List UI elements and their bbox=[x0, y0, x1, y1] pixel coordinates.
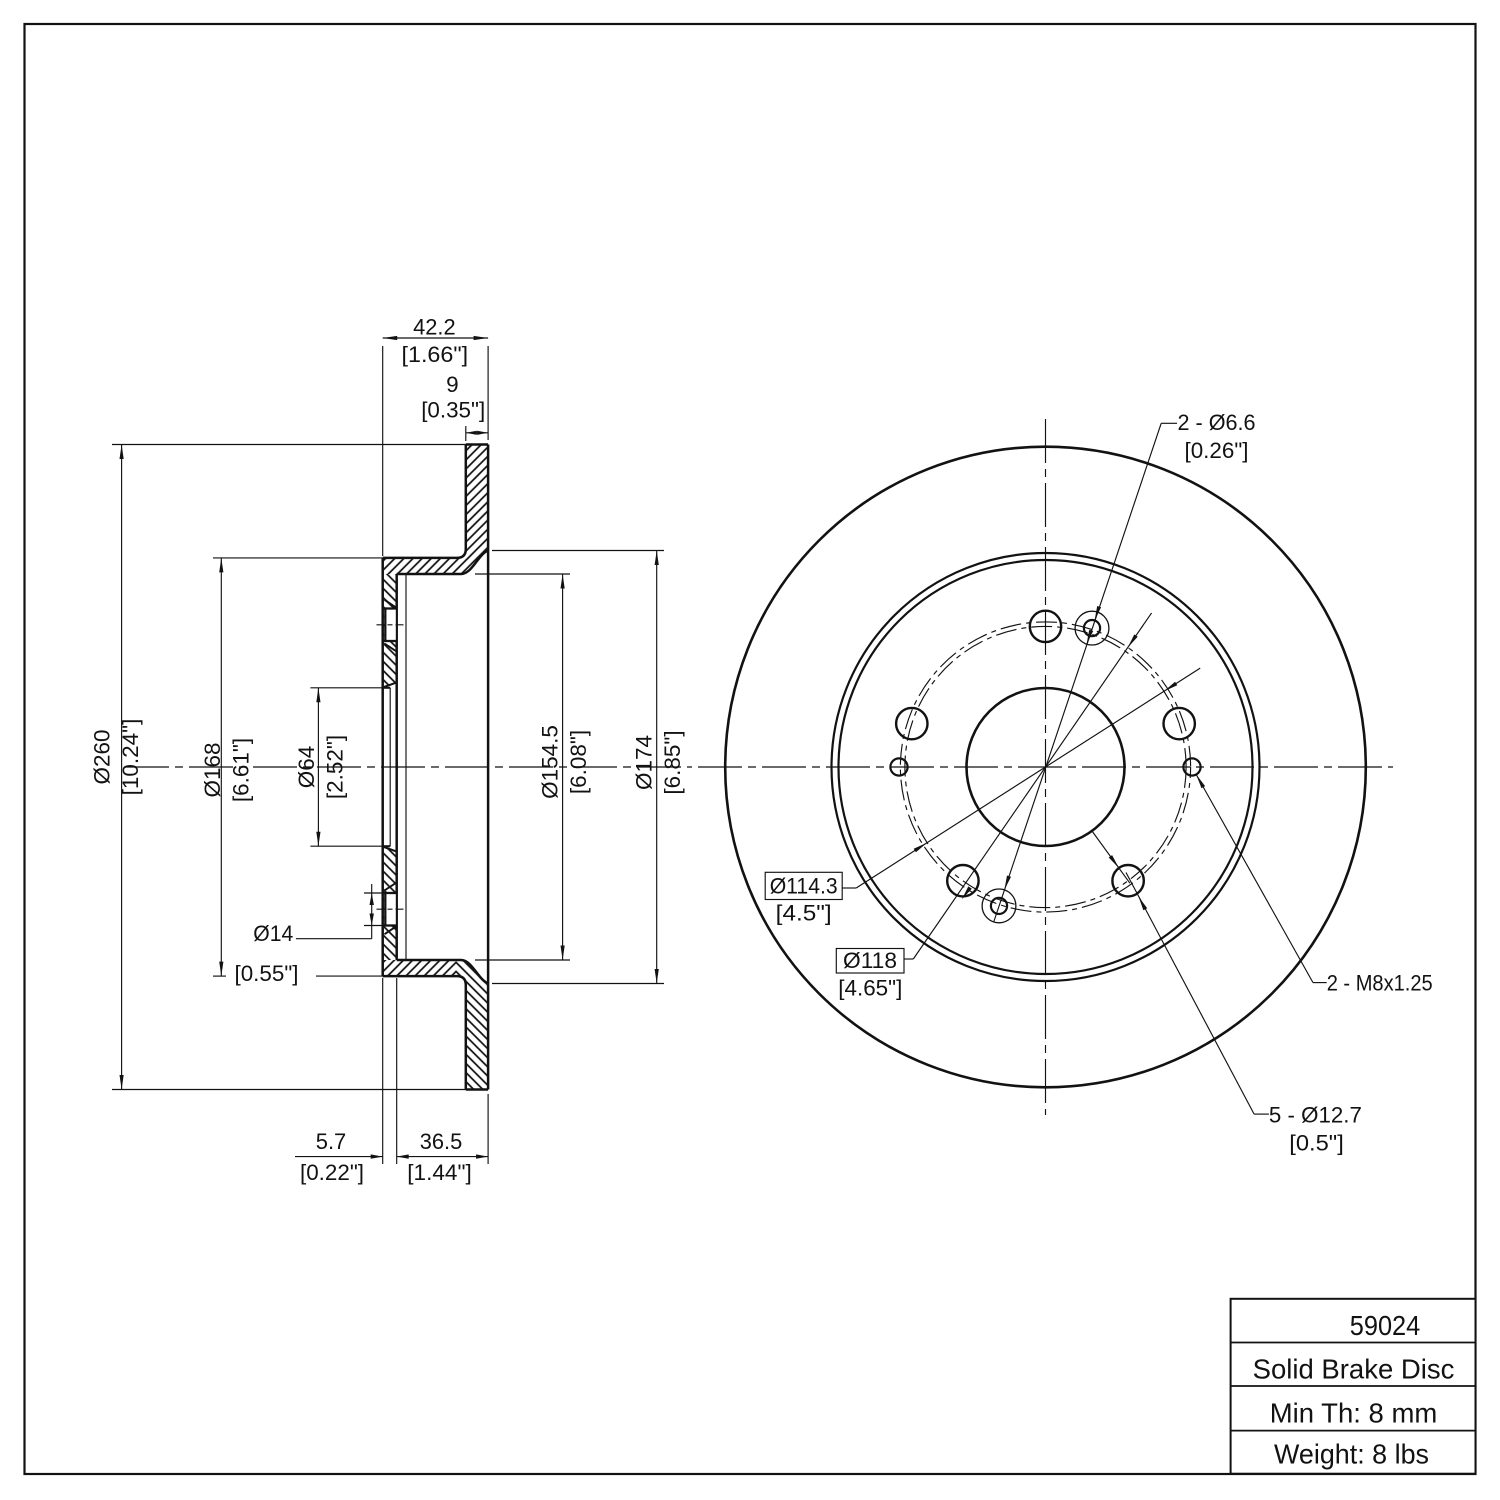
svg-text:[0.35"]: [0.35"] bbox=[421, 398, 485, 423]
dimension 5.7 text bbox=[316, 1129, 347, 1154]
svg-text:[6.85"]: [6.85"] bbox=[660, 730, 685, 794]
dimension 42.2 text bbox=[413, 315, 456, 340]
svg-text:Ø260: Ø260 bbox=[90, 729, 115, 784]
svg-text:Solid Brake Disc: Solid Brake Disc bbox=[1253, 1354, 1455, 1385]
svg-text:5.7: 5.7 bbox=[316, 1129, 347, 1154]
section lower hat-drum hatch bbox=[383, 960, 456, 976]
dimension Ø260 inch text bbox=[118, 719, 143, 796]
dimension 9 text bbox=[446, 372, 459, 397]
section ring outboard face bbox=[487, 445, 490, 1090]
label 2-Ø6.6 text bbox=[1178, 410, 1256, 435]
dimension 42.2 lines bbox=[383, 336, 488, 556]
svg-text:[0.55"]: [0.55"] bbox=[235, 961, 299, 986]
leader 2-M8x1.25 bbox=[1196, 775, 1327, 983]
svg-text:Ø64: Ø64 bbox=[294, 746, 319, 789]
dimension Ø64 extension+line bbox=[310, 688, 382, 846]
dimension Ø260 text bbox=[90, 729, 115, 784]
dimension Ø174 text bbox=[632, 735, 657, 790]
label Ø114.3 text bbox=[770, 874, 838, 899]
front view lug hole Ø12.7 at 162 deg bbox=[896, 708, 927, 739]
leader 2-Ø6.6 bbox=[994, 423, 1177, 922]
section neck curve upper bbox=[461, 551, 488, 575]
dimension Ø154.5 text bbox=[538, 725, 563, 799]
dimension Ø174 extension+line bbox=[492, 551, 664, 984]
label Ø114.3 box bbox=[765, 872, 842, 899]
svg-text:[6.61"]: [6.61"] bbox=[229, 738, 254, 802]
front view M8 thread hole at 180 deg bbox=[890, 758, 907, 775]
section ring inboard face lower bbox=[457, 976, 466, 1089]
svg-text:2 - Ø6.6: 2 - Ø6.6 bbox=[1178, 410, 1256, 435]
dimension 36.5 inch text bbox=[407, 1160, 472, 1185]
front view friction surface inner circle Ø174 bbox=[832, 553, 1260, 981]
svg-text:Ø14: Ø14 bbox=[253, 921, 293, 946]
section upper flange bolt hole Ø14 bbox=[384, 600, 397, 652]
label 2-M8x1.25 text bbox=[1327, 971, 1433, 996]
svg-text:[2.52"]: [2.52"] bbox=[323, 735, 348, 799]
dimension Ø168 text bbox=[200, 742, 225, 797]
svg-text:[4.65"]: [4.65"] bbox=[838, 976, 902, 1001]
section lower flange hatch bbox=[383, 847, 397, 960]
front view lug hole Ø12.7 at 234 deg bbox=[947, 865, 978, 896]
section upper friction-ring hatch bbox=[456, 445, 488, 575]
svg-text:Ø118: Ø118 bbox=[843, 948, 897, 973]
dimension Ø168 extension+line bbox=[213, 558, 383, 976]
svg-text:59024: 59024 bbox=[1350, 1310, 1421, 1341]
section lower bolt hole centermark bbox=[377, 908, 404, 910]
section upper hat-drum hatch bbox=[383, 558, 456, 574]
title text Min Th: 8 mm bbox=[1270, 1398, 1438, 1429]
label Ø118 inch text bbox=[838, 976, 902, 1001]
svg-text:Ø154.5: Ø154.5 bbox=[538, 725, 563, 799]
front view outer circle Ø260 bbox=[725, 447, 1366, 1088]
section drum outer face lower bbox=[383, 975, 457, 978]
title text part number 59024 bbox=[1350, 1310, 1421, 1341]
svg-text:42.2: 42.2 bbox=[413, 315, 456, 340]
svg-text:[1.44"]: [1.44"] bbox=[407, 1160, 472, 1185]
svg-text:Ø114.3: Ø114.3 bbox=[770, 874, 838, 899]
dimension Ø14 lines bbox=[296, 884, 384, 939]
svg-text:5 - Ø12.7: 5 - Ø12.7 bbox=[1269, 1103, 1362, 1128]
dimension Ø174 inch text bbox=[660, 730, 685, 794]
dimension Ø260 extension+line bbox=[112, 445, 466, 1090]
section ring bottom face bbox=[466, 1088, 488, 1091]
svg-text:36.5: 36.5 bbox=[420, 1129, 463, 1154]
svg-text:[0.5"]: [0.5"] bbox=[1289, 1131, 1344, 1156]
section drum inner face lower bbox=[397, 959, 461, 962]
front view set-screw hole Ø6.6 at 71.5 deg bbox=[1075, 611, 1109, 645]
dimension Ø14 text bbox=[253, 921, 293, 946]
svg-text:[4.5"]: [4.5"] bbox=[776, 901, 832, 926]
dimension 5.7 inch text bbox=[300, 1160, 364, 1185]
section lower flange bolt hole Ø14 bbox=[384, 882, 397, 934]
dimension Ø154.5 inch text bbox=[566, 730, 591, 794]
front view bolt circle Ø114.3 centerline circle bbox=[905, 626, 1186, 907]
section lower friction-ring hatch bbox=[456, 960, 488, 1090]
dimension 9 lines bbox=[466, 426, 488, 441]
label 2-Ø6.6 inch text bbox=[1185, 438, 1249, 463]
title block table bbox=[1231, 1299, 1476, 1474]
dimension Ø168 inch text bbox=[229, 738, 254, 802]
front view service circle Ø118 centerline circle bbox=[900, 622, 1190, 912]
front view set-screw hole Ø6.6 at 251.5 deg bbox=[982, 889, 1016, 923]
front view center bore circle Ø64 bbox=[967, 688, 1125, 846]
svg-text:[1.66"]: [1.66"] bbox=[402, 342, 469, 367]
section ring inboard face upper bbox=[457, 445, 466, 558]
section hat interior fillet silhouette bbox=[405, 575, 407, 960]
svg-text:[6.08"]: [6.08"] bbox=[566, 730, 591, 794]
label Ø118 box bbox=[836, 949, 904, 974]
leader Ø118 bbox=[904, 613, 1152, 959]
front view hat circle Ø168 bbox=[839, 560, 1253, 974]
leader Ø114.3 bbox=[842, 668, 1200, 888]
dimension Ø14 inch text bbox=[235, 961, 299, 986]
section flange right face bbox=[395, 574, 398, 960]
dimension 5.7 and 36.5 lines bbox=[295, 978, 488, 1164]
front view lug hole Ø12.7 at 90 deg bbox=[1030, 611, 1061, 642]
radial pointer to lug hole bbox=[1092, 831, 1130, 883]
leader 5-Ø12.7 bbox=[1126, 873, 1269, 1115]
label 5-Ø12.7 text bbox=[1269, 1103, 1362, 1128]
section hub-bore silhouette line bbox=[389, 688, 391, 846]
label 5-Ø12.7 inch text bbox=[1289, 1131, 1344, 1156]
svg-text:[0.26"]: [0.26"] bbox=[1185, 438, 1249, 463]
dimension 36.5 text bbox=[420, 1129, 463, 1154]
svg-text:[10.24"]: [10.24"] bbox=[118, 719, 143, 796]
svg-text:Ø168: Ø168 bbox=[200, 742, 225, 797]
section drum outer face upper bbox=[383, 557, 457, 560]
front view M8 thread hole at 0 deg bbox=[1183, 758, 1200, 775]
dimension Ø154.5 extension+line bbox=[475, 574, 570, 960]
dimension Ø64 inch text bbox=[323, 735, 348, 799]
section neck curve lower bbox=[461, 960, 488, 984]
front view lug hole Ø12.7 at 306 deg bbox=[1112, 865, 1143, 896]
front view lug hole Ø12.7 at 18 deg bbox=[1164, 708, 1195, 739]
section flange left face bbox=[381, 558, 384, 976]
section bore top edge bbox=[383, 687, 391, 689]
label Ø114.3 inch text bbox=[776, 901, 832, 926]
svg-text:Weight: 8 lbs: Weight: 8 lbs bbox=[1274, 1439, 1429, 1470]
section upper flange hatch bbox=[383, 574, 397, 687]
dimension Ø64 text bbox=[294, 746, 319, 789]
dimension 42.2 inch text bbox=[402, 342, 469, 367]
section bore top chamfer bbox=[384, 682, 397, 687]
section upper bolt hole centermark bbox=[377, 624, 404, 626]
section bore bottom edge bbox=[383, 845, 391, 847]
svg-text:Ø174: Ø174 bbox=[632, 735, 657, 790]
label Ø118 text bbox=[843, 948, 897, 973]
title text Weight: 8 lbs bbox=[1274, 1439, 1429, 1470]
dimension 9 inch text bbox=[421, 398, 485, 423]
section centerline bbox=[125, 766, 692, 768]
title text Solid Brake Disc bbox=[1253, 1354, 1455, 1385]
section bore bottom chamfer bbox=[384, 847, 397, 852]
front view crosshair horizontal centerline bbox=[698, 766, 1393, 768]
svg-text:9: 9 bbox=[446, 372, 459, 397]
front view crosshair vertical centerline bbox=[1045, 419, 1047, 1115]
section ring top face bbox=[466, 443, 488, 446]
svg-text:[0.22"]: [0.22"] bbox=[300, 1160, 364, 1185]
svg-text:2 - M8x1.25: 2 - M8x1.25 bbox=[1327, 971, 1433, 996]
section drum inner face upper bbox=[397, 573, 461, 576]
svg-text:Min Th: 8 mm: Min Th: 8 mm bbox=[1270, 1398, 1438, 1429]
